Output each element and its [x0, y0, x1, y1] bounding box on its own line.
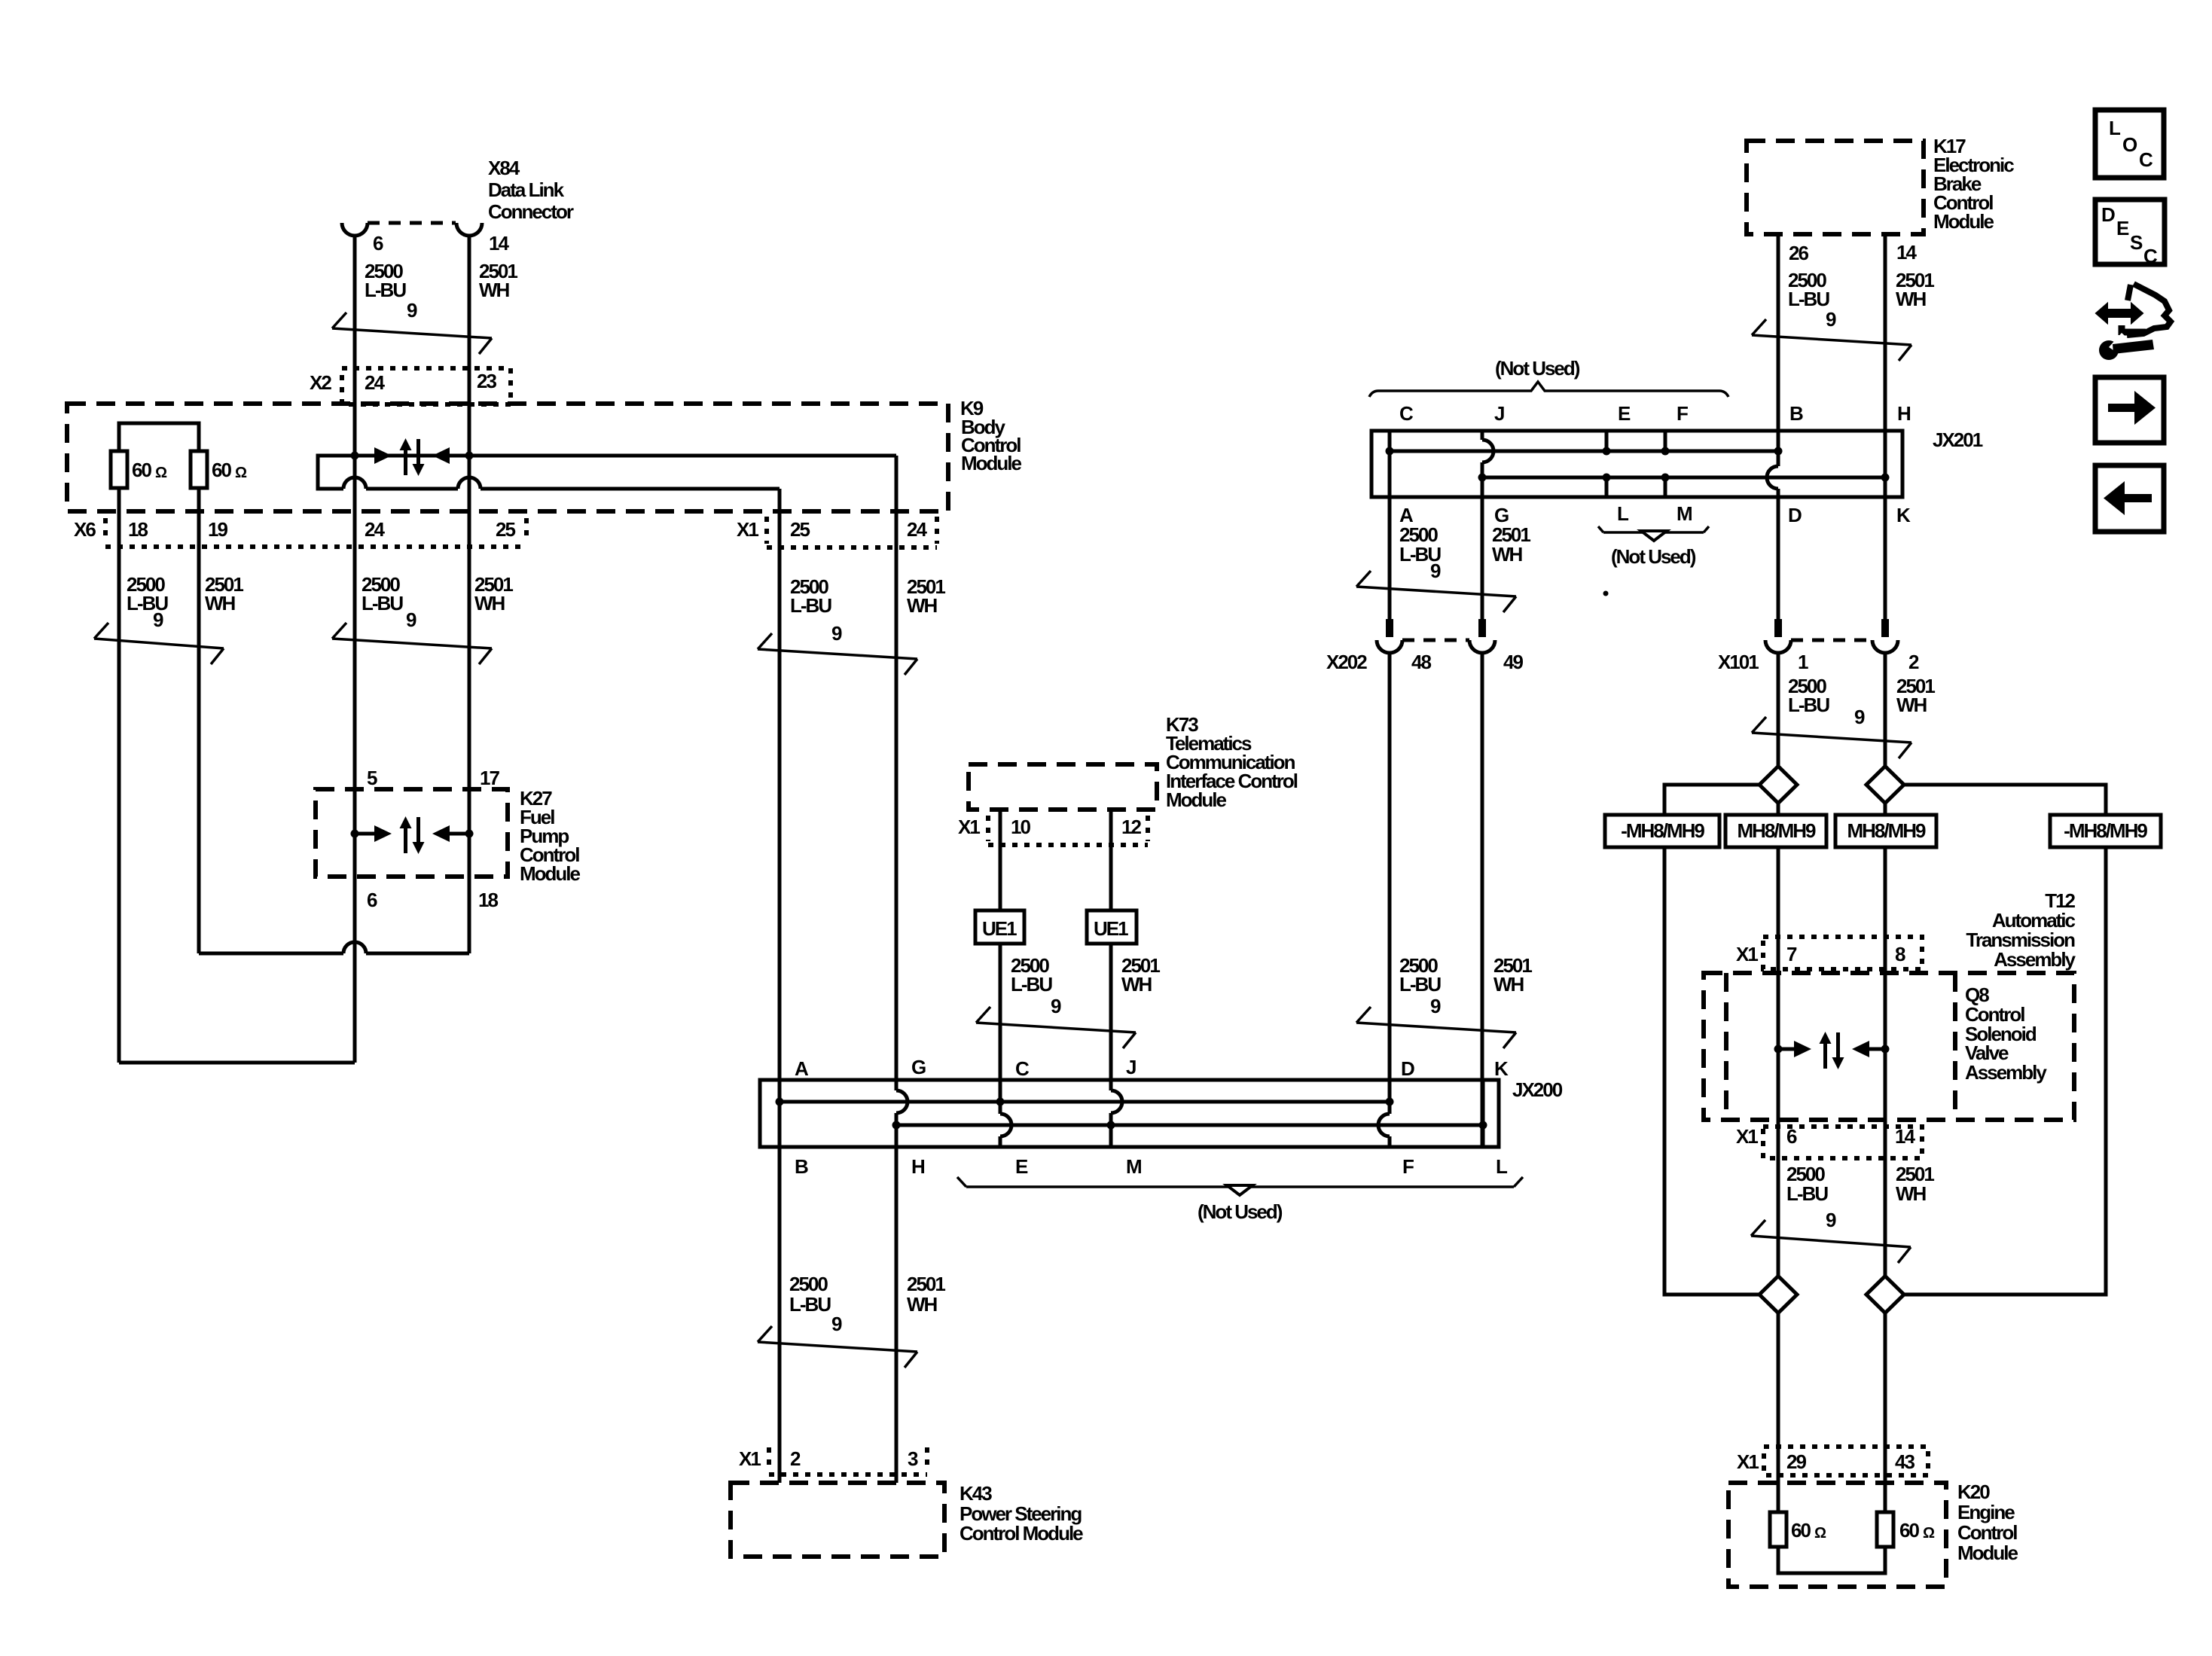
wire 2501 WH lower loop (pin19 to K27-18)	[199, 952, 469, 956]
(Not Used) bracket under JX200 E..L	[957, 1177, 1523, 1223]
svg-text:D: D	[1401, 1057, 1414, 1080]
svg-text:G: G	[911, 1056, 926, 1078]
module K20 Engine Control Module box	[1728, 1481, 2018, 1587]
svg-text:2500: 2500	[789, 1273, 828, 1295]
wire bottom diamond 2 to K20 pin 43	[1884, 1313, 1887, 1512]
svg-text:S: S	[2130, 231, 2143, 254]
svg-text:9: 9	[407, 299, 417, 322]
svg-text:9: 9	[831, 1313, 842, 1335]
svg-text:17: 17	[480, 767, 499, 789]
wire hop of 2500 over JX200 line2	[1000, 1114, 1011, 1136]
splice pack JX200 box	[760, 1078, 1563, 1147]
svg-text:L-BU: L-BU	[365, 279, 406, 301]
svg-text:9: 9	[1854, 706, 1865, 728]
svg-text:UE1: UE1	[982, 917, 1017, 940]
svg-text:X1: X1	[1737, 1450, 1759, 1473]
svg-text:14: 14	[1895, 1125, 1915, 1148]
stray dot artifact	[1603, 591, 1609, 596]
svg-text:B: B	[795, 1155, 808, 1178]
JX200 terminal G/H vertical with hop over line1	[896, 1080, 908, 1113]
connector X1 of K20	[1737, 1447, 1928, 1475]
wire 2501 WH from K73-12 to JX200 J	[1109, 807, 1113, 1147]
svg-text:WH: WH	[1896, 288, 1927, 310]
svg-text:Engine: Engine	[1957, 1501, 2015, 1523]
wire X202-49 down to JX200 K	[1481, 653, 1484, 1147]
wire hop over 2500 at loop crossing	[343, 942, 366, 953]
wire 2500 L-BU from K73-10 to JX200 C	[999, 807, 1002, 1147]
wire X202-48 down to JX200 D	[1388, 653, 1392, 1114]
svg-text:L-BU: L-BU	[1786, 1182, 1828, 1205]
svg-text:9: 9	[1051, 995, 1061, 1017]
connector X202	[1326, 619, 1495, 673]
svg-text:60: 60	[132, 459, 151, 481]
module K27 Fuel Pump Control Module box	[316, 787, 581, 885]
wire X101-2 down to diamond splice	[1884, 653, 1887, 766]
wire 2501 WH from K9 X1-24 to JX200 G and K43	[895, 456, 899, 1483]
svg-text:L: L	[1617, 502, 1629, 525]
harness box MH8/MH9 (right)	[1835, 815, 1936, 847]
harness slash 9 (JX201 A/G pair)	[1356, 571, 1516, 612]
svg-text:F: F	[1677, 402, 1688, 425]
svg-text:WH: WH	[1493, 973, 1524, 996]
svg-text:9: 9	[831, 622, 842, 645]
svg-text:Module: Module	[1957, 1542, 2018, 1564]
svg-text:L-BU: L-BU	[1011, 973, 1052, 996]
wire JX201-A down to X202-48	[1388, 497, 1392, 620]
module K73 Telematics Communication Interface Control Module box	[969, 713, 1298, 811]
svg-text:2501: 2501	[907, 1273, 945, 1295]
svg-text:49: 49	[1503, 651, 1523, 673]
svg-text:1: 1	[1798, 651, 1808, 673]
icon arrow-left box	[2095, 465, 2164, 532]
module Q8 Control Solenoid Valve Assembly box	[1726, 973, 2047, 1120]
module T12 Automatic Transmission Assembly box	[1704, 973, 2074, 1120]
resistor 60 ohm (left, in K9)	[111, 423, 199, 488]
svg-text:9: 9	[1430, 995, 1441, 1017]
splice diamond bottom 2	[1866, 1276, 1904, 1313]
svg-text:L-BU: L-BU	[790, 594, 831, 617]
connector X1 of T12 (bottom)	[1736, 1125, 1922, 1158]
svg-text:H: H	[1897, 402, 1911, 425]
harness box -MH8/MH9 (far right)	[2050, 815, 2161, 847]
svg-text:9: 9	[153, 608, 163, 631]
svg-text:WH: WH	[1896, 1182, 1927, 1205]
wire hop of 2501 over JX200 line1	[1111, 1090, 1122, 1113]
wire 2500 L-BU from X84-6 down to K27 and loop	[353, 236, 357, 1063]
JX200 terminal K/L vertical	[1481, 1080, 1485, 1147]
svg-text:Control Module: Control Module	[960, 1522, 1083, 1545]
svg-text:MH8/MH9: MH8/MH9	[1737, 819, 1816, 842]
svg-text:WH: WH	[479, 279, 510, 301]
wire between top diamond 1 and bottom diamond 1	[1777, 804, 1780, 1276]
svg-text:F: F	[1402, 1155, 1414, 1178]
JX201 terminal E stub	[1605, 431, 1609, 451]
svg-text:WH: WH	[1492, 543, 1523, 566]
JX200 internal bus line 2	[896, 1124, 1483, 1127]
svg-text:Ω: Ω	[235, 465, 247, 481]
wire 2501 WH from X84-14 down to K27	[468, 236, 471, 953]
JX201 B/D wire hop over line2	[1767, 466, 1778, 489]
svg-text:C: C	[2143, 245, 2158, 267]
svg-text:D: D	[1788, 504, 1802, 526]
icon connector-view (arrow, outline, wrench)	[2096, 284, 2171, 360]
svg-text:L-BU: L-BU	[789, 1293, 831, 1316]
svg-text:Ω: Ω	[1814, 1525, 1826, 1542]
wire between top diamond 2 and bottom diamond 2	[1884, 804, 1887, 1276]
svg-text:C: C	[1399, 402, 1414, 425]
svg-text:(Not Used): (Not Used)	[1495, 357, 1580, 380]
serial data bus symbol in K27	[351, 816, 474, 854]
svg-text:L-BU: L-BU	[1399, 973, 1441, 996]
splice pack JX201 box	[1371, 428, 1983, 497]
JX201 terminal M stub	[1664, 477, 1667, 497]
svg-text:J: J	[1126, 1056, 1136, 1078]
wire 2501 WH from K17-14 through JX201 H/K to X101-2	[1884, 234, 1887, 620]
svg-text:WH: WH	[474, 592, 505, 615]
svg-text:C: C	[1015, 1057, 1030, 1080]
serial data bus symbol in K9	[318, 438, 896, 489]
JX201 terminal J/G vertical with hop over line1	[1482, 431, 1493, 620]
splice diamond bottom 1	[1759, 1276, 1797, 1313]
svg-text:J: J	[1494, 402, 1504, 425]
svg-text:8: 8	[1895, 943, 1905, 965]
fuse UE1 (right)	[1087, 910, 1137, 944]
connector X1 of T12 (top)	[1736, 937, 1922, 969]
JX201 terminal F stub	[1664, 431, 1667, 451]
svg-text:K43: K43	[960, 1482, 992, 1505]
svg-text:60: 60	[1791, 1519, 1811, 1542]
wire 2500 L-BU from K9 X1-25 to JX200 A and K43	[778, 489, 782, 1483]
svg-text:9: 9	[1826, 308, 1836, 331]
svg-text:X6: X6	[74, 518, 96, 541]
svg-text:D: D	[2101, 203, 2115, 226]
svg-text:X1: X1	[739, 1447, 761, 1470]
(Not Used) bracket under JX201 L M	[1598, 526, 1709, 568]
resistor 60 ohm (left, in K20)	[1770, 1512, 1826, 1547]
harness slash 9 (X202 pair)	[1356, 1007, 1516, 1048]
left bypass wire -MH8/MH9	[1664, 785, 1759, 1295]
svg-text:6: 6	[1786, 1125, 1797, 1148]
resistor 60 ohm (right, in K9)	[191, 451, 247, 488]
harness box MH8/MH9 (left)	[1725, 815, 1826, 847]
wire 2500 L-BU lower loop (pin18 to K27-6)	[119, 1061, 355, 1065]
splice diamond top 1	[1759, 767, 1797, 804]
harness slash 9 (K43 pair)	[758, 1326, 917, 1368]
splice diamond top 2	[1866, 767, 1904, 804]
svg-text:5: 5	[367, 767, 377, 789]
JX201 terminal L stub	[1605, 477, 1609, 497]
fuse UE1 (left)	[975, 910, 1024, 944]
svg-text:X1: X1	[1736, 943, 1758, 965]
svg-text:14: 14	[1896, 241, 1917, 264]
svg-text:18: 18	[128, 518, 148, 541]
svg-text:24: 24	[365, 371, 385, 394]
svg-text:14: 14	[489, 232, 509, 255]
serial data bus symbol in Q8	[1774, 1032, 1890, 1069]
wire linking resistor bottoms in K20	[1778, 1547, 1885, 1573]
svg-text:WH: WH	[1121, 973, 1152, 996]
svg-text:WH: WH	[205, 592, 236, 615]
svg-text:X1: X1	[958, 816, 980, 838]
svg-text:9: 9	[406, 608, 416, 631]
svg-text:Ω: Ω	[1923, 1525, 1935, 1542]
svg-text:JX200: JX200	[1512, 1078, 1563, 1101]
connector X84 Data Link Connector	[342, 157, 574, 236]
module K43 Power Steering Control Module box	[731, 1482, 1083, 1557]
svg-text:Connector: Connector	[488, 200, 574, 223]
svg-text:Ω: Ω	[155, 465, 167, 481]
icon LOC box	[2095, 110, 2164, 178]
svg-text:X84: X84	[488, 157, 520, 179]
JX201 junction dots line1: A E F D	[1386, 447, 1394, 456]
svg-text:Module: Module	[961, 452, 1022, 474]
right bypass wire -MH8/MH9	[1904, 785, 2106, 1295]
svg-text:7: 7	[1786, 943, 1797, 965]
svg-text:L-BU: L-BU	[1788, 288, 1829, 310]
svg-text:Module: Module	[520, 862, 581, 885]
svg-text:48: 48	[1411, 651, 1431, 673]
svg-text:E: E	[1015, 1155, 1028, 1178]
svg-text:Assembly: Assembly	[1994, 948, 2076, 971]
svg-text:MH8/MH9: MH8/MH9	[1847, 819, 1926, 842]
svg-text:L-BU: L-BU	[362, 592, 403, 615]
JX201 terminal C/A vertical	[1388, 431, 1392, 620]
svg-text:M: M	[1677, 502, 1692, 525]
svg-text:60: 60	[212, 459, 231, 481]
harness slash 9 (X6 right pair)	[332, 623, 492, 664]
svg-text:25: 25	[496, 518, 515, 541]
harness box -MH8/MH9 (far left)	[1605, 815, 1719, 847]
svg-text:9: 9	[1826, 1209, 1836, 1231]
harness slash 9 (K9 X1 pair)	[758, 633, 917, 675]
svg-text:Module: Module	[1933, 210, 1994, 233]
svg-text:-MH8/MH9: -MH8/MH9	[1621, 819, 1704, 842]
svg-text:23: 23	[477, 370, 496, 392]
svg-text:K20: K20	[1957, 1481, 1990, 1503]
module K17 Electronic Brake Control Module box	[1747, 135, 2014, 234]
svg-text:(Not Used): (Not Used)	[1198, 1200, 1283, 1223]
connector X1 of K43	[739, 1447, 927, 1475]
svg-text:6: 6	[373, 232, 383, 255]
svg-text:C: C	[2139, 148, 2153, 171]
svg-text:X1: X1	[1736, 1125, 1758, 1148]
svg-text:L-BU: L-BU	[1788, 694, 1829, 716]
svg-text:M: M	[1126, 1155, 1141, 1178]
svg-text:L: L	[1496, 1155, 1508, 1178]
svg-text:24: 24	[907, 518, 927, 541]
svg-text:E: E	[2116, 217, 2129, 239]
harness slash 9 (X6 left pair)	[94, 623, 224, 664]
svg-text:19: 19	[208, 518, 227, 541]
svg-text:Assembly: Assembly	[1965, 1061, 2047, 1084]
connector X1 of K9 (bottom)	[737, 517, 937, 547]
svg-text:H: H	[911, 1155, 925, 1178]
wire bottom diamond 1 to K20 pin 29	[1777, 1313, 1780, 1512]
svg-text:B: B	[1789, 402, 1803, 425]
svg-text:E: E	[1618, 402, 1631, 425]
svg-text:60: 60	[1899, 1519, 1919, 1542]
svg-text:2: 2	[1908, 651, 1919, 673]
connector X101	[1718, 619, 1898, 673]
svg-text:JX201: JX201	[1933, 428, 1983, 451]
JX201 junction dots line2: G L M K	[1478, 474, 1487, 482]
svg-text:18: 18	[478, 889, 498, 911]
svg-text:26: 26	[1789, 242, 1808, 264]
svg-text:Control: Control	[1957, 1521, 2017, 1544]
svg-text:10: 10	[1011, 816, 1030, 838]
wire from left resistor down to X6 pin 18	[117, 488, 121, 1063]
svg-text:A: A	[795, 1057, 809, 1080]
wire JX201-G down to X202-49	[1481, 497, 1484, 620]
svg-text:Module: Module	[1166, 788, 1227, 811]
JX200 terminal D/F vertical hop over line2	[1378, 1080, 1390, 1147]
svg-text:25: 25	[790, 518, 810, 541]
svg-text:29: 29	[1786, 1450, 1806, 1473]
connector X1 of K73	[958, 816, 1148, 845]
svg-text:X202: X202	[1326, 651, 1367, 673]
svg-text:X101: X101	[1718, 651, 1759, 673]
svg-text:O: O	[2122, 133, 2137, 156]
svg-text:9: 9	[1430, 560, 1441, 582]
svg-text:K: K	[1896, 504, 1911, 526]
svg-text:6: 6	[367, 889, 377, 911]
wire from right resistor down to X6 pin 19	[197, 488, 201, 953]
svg-text:3: 3	[908, 1447, 918, 1470]
harness slash 9 (X84 pair)	[332, 313, 492, 354]
svg-text:WH: WH	[907, 1293, 938, 1316]
svg-text:L: L	[2109, 117, 2121, 139]
JX200 internal bus line 1	[780, 1100, 1390, 1104]
wire X101-1 down to diamond splice	[1777, 653, 1780, 766]
svg-text:X1: X1	[737, 518, 758, 541]
brace over JX201 pins C J E F	[1369, 382, 1728, 397]
harness slash 9 (X101 pair)	[1752, 717, 1911, 758]
harness slash 9 (K17 pair)	[1752, 319, 1911, 361]
svg-text:X2: X2	[310, 371, 331, 394]
svg-text:24: 24	[365, 518, 385, 541]
svg-text:12: 12	[1121, 816, 1141, 838]
harness slash 9 (UE1 pair)	[976, 1007, 1136, 1048]
connector X2 of K9	[310, 368, 511, 404]
svg-text:Data Link: Data Link	[488, 178, 565, 201]
harness slash 9 (T12 bottom pair)	[1751, 1220, 1911, 1263]
icon DESC box	[2095, 200, 2165, 267]
connector X6 (inline)	[74, 518, 526, 547]
svg-text:2: 2	[790, 1447, 801, 1470]
JX201 internal bus line 1	[1390, 450, 1778, 453]
svg-text:WH: WH	[1896, 694, 1927, 716]
JX200 junction dots line1: A, C, D	[776, 1098, 784, 1106]
wire 2500 L-BU from K17-26 through JX201 B/D to X101-1	[1777, 234, 1780, 620]
JX201 internal bus line 2	[1482, 476, 1885, 480]
svg-text:43: 43	[1895, 1450, 1915, 1473]
module K9 Body Control Module box	[67, 397, 1022, 511]
svg-text:-MH8/MH9: -MH8/MH9	[2064, 819, 2147, 842]
JX200 junction dots line2: G, J, K	[892, 1121, 901, 1130]
svg-text:UE1: UE1	[1094, 917, 1128, 940]
svg-text:K: K	[1494, 1057, 1509, 1080]
svg-text:(Not Used): (Not Used)	[1611, 545, 1696, 568]
svg-text:WH: WH	[907, 594, 938, 617]
resistor 60 ohm (right, in K20)	[1877, 1512, 1935, 1547]
icon arrow-right box	[2095, 377, 2164, 443]
